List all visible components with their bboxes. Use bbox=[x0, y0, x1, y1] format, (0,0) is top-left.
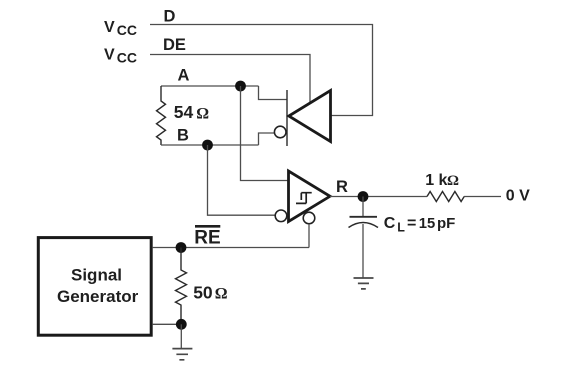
wire signal generator bottom return bbox=[153, 323, 182, 325]
op-amp driver U1 (triangle pointing left) bbox=[289, 91, 331, 142]
svg-text:Generator: Generator bbox=[57, 287, 139, 306]
svg-text:=: = bbox=[407, 215, 416, 232]
svg-text:54: 54 bbox=[174, 102, 194, 122]
junction dot on RE line bbox=[176, 242, 187, 253]
terminal label 0 V bbox=[506, 187, 530, 204]
svg-text:Ω: Ω bbox=[447, 173, 459, 189]
svg-text:pF: pF bbox=[437, 215, 455, 232]
wire D horizontal from Vcc to driver input bbox=[150, 25, 373, 116]
power VCC (second, for DE) bbox=[104, 47, 137, 66]
op-amp receiver U2 (triangle pointing right) bbox=[289, 171, 331, 222]
value label 1 kohm bbox=[425, 172, 459, 189]
svg-text:15: 15 bbox=[419, 216, 435, 232]
svg-text:C: C bbox=[384, 215, 396, 232]
wire from R node down to capacitor bbox=[362, 197, 364, 217]
node B label bbox=[177, 127, 189, 145]
wire DE from Vcc down to driver enable bbox=[150, 55, 310, 103]
svg-text:A: A bbox=[178, 67, 190, 85]
svg-text:Ω: Ω bbox=[196, 105, 209, 122]
ground (below capacitor) bbox=[354, 278, 374, 289]
wire from enable bubble down to RE line bbox=[308, 224, 310, 248]
value label 50 ohm bbox=[193, 282, 228, 302]
node RE label with overline bbox=[194, 226, 220, 248]
value label 54 ohm bbox=[174, 102, 210, 122]
resistor 54 ohm termination bbox=[157, 86, 166, 145]
capacitor CL bbox=[349, 217, 379, 228]
junction dot on B wire bbox=[202, 140, 213, 151]
wire signal generator output (RE line) bbox=[153, 247, 309, 249]
svg-text:RE: RE bbox=[194, 227, 220, 248]
svg-text:Ω: Ω bbox=[215, 286, 228, 303]
wire driver output stub A to bar bbox=[259, 86, 288, 100]
svg-text:B: B bbox=[177, 127, 189, 145]
wire bus A (top of termination) bbox=[161, 85, 259, 87]
svg-text:V: V bbox=[104, 19, 115, 36]
node DE label bbox=[163, 36, 186, 54]
junction dot on R output bbox=[358, 191, 369, 202]
node R label bbox=[336, 178, 348, 196]
node A label bbox=[178, 67, 190, 85]
resistor 1 kohm bbox=[427, 192, 464, 202]
wire bus B (bottom of termination) bbox=[161, 144, 259, 146]
svg-text:0 V: 0 V bbox=[506, 187, 530, 204]
hysteresis symbol inside receiver bbox=[296, 193, 312, 204]
wire B down to receiver inverting input bbox=[208, 145, 275, 215]
svg-text:50: 50 bbox=[193, 282, 213, 302]
wire driver output stub B to bubble bbox=[259, 133, 275, 145]
svg-text:L: L bbox=[397, 220, 405, 234]
svg-text:D: D bbox=[164, 8, 176, 26]
wire A down to receiver input bbox=[241, 86, 289, 181]
svg-text:1 k: 1 k bbox=[425, 172, 447, 189]
wire receiver output R bbox=[330, 196, 427, 198]
junction dot on A wire bbox=[235, 81, 246, 92]
svg-text:CC: CC bbox=[117, 50, 137, 66]
driver inverting bubble bbox=[274, 126, 286, 138]
receiver inverting input bubble bbox=[275, 210, 287, 222]
resistor 50 ohm bbox=[176, 248, 187, 325]
power VCC (top, for D) bbox=[104, 19, 137, 38]
wire resistor to 0V terminal bbox=[464, 196, 501, 198]
node D label bbox=[164, 8, 176, 26]
value label CL = 15 pF bbox=[384, 215, 456, 235]
ground (below 50 ohm) bbox=[172, 349, 192, 360]
svg-text:R: R bbox=[336, 178, 348, 196]
signal generator box bbox=[38, 238, 151, 336]
svg-text:V: V bbox=[104, 47, 115, 64]
junction dot bottom bbox=[176, 319, 187, 330]
receiver enable bubble (RE) bbox=[303, 212, 315, 224]
wire capacitor to ground bbox=[362, 224, 364, 278]
driver input bar bbox=[286, 90, 288, 146]
wire to ground bbox=[180, 324, 182, 348]
svg-text:CC: CC bbox=[117, 22, 137, 38]
svg-text:DE: DE bbox=[163, 36, 186, 54]
svg-text:Signal: Signal bbox=[71, 266, 122, 285]
